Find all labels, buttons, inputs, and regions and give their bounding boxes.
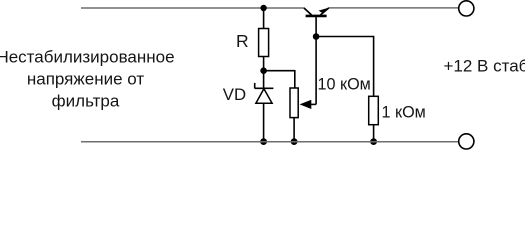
svg-text:Нестабилизированное: Нестабилизированное — [0, 47, 175, 66]
svg-text:напряжение от: напряжение от — [27, 69, 144, 88]
wire: branch from base junction to 1 kOhm resistor — [316, 37, 374, 97]
svg-text:фильтра: фильтра — [52, 91, 120, 110]
wire: from R/VD node to potentiometer top — [264, 71, 295, 88]
wire: top rail from input to transistor collector — [81, 7, 305, 9]
transistor VT (NPN pass transistor) — [304, 8, 329, 16]
svg-text:R: R — [236, 31, 249, 51]
wire: resistor R upper lead — [263, 8, 265, 29]
terminal: output bottom circle — [459, 134, 474, 149]
annotation: input description text — [0, 47, 175, 110]
wiper arrow of potentiometer (connects to base line) — [300, 100, 317, 109]
svg-text:+12 В стаб: +12 В стаб — [444, 56, 525, 75]
svg-text:10 кОм: 10 кОм — [318, 75, 371, 93]
terminal: output top circle — [459, 1, 474, 16]
wire: bottom rail — [81, 141, 459, 143]
potentiometer 10 kOhm body — [290, 88, 298, 118]
resistor 1 kOhm body — [369, 96, 379, 124]
wire: potentiometer lower lead to bottom rail — [293, 118, 295, 142]
zener diode VD — [255, 71, 274, 142]
svg-text:VD: VD — [223, 85, 246, 104]
node: 1 kOhm to bottom rail junction — [370, 138, 377, 145]
wire: base lead going down from transistor — [315, 17, 317, 105]
node: base junction (base / wiper / 1 kOhm branch) — [313, 33, 320, 40]
resistor R body — [259, 29, 269, 57]
wire: resistor R lower lead to node — [263, 57, 265, 71]
wire: emitter to +12V output terminal — [329, 7, 459, 9]
node: potentiometer to bottom rail junction — [291, 138, 298, 145]
node: junction of top rail and resistor R — [260, 5, 266, 11]
node: junction of R, zener VD and potentiometer top — [260, 67, 267, 74]
node: zener VD to bottom rail junction — [260, 138, 267, 145]
svg-text:1 кОм: 1 кОм — [382, 104, 426, 122]
wire: 1 kOhm lower lead to bottom rail — [373, 125, 375, 142]
